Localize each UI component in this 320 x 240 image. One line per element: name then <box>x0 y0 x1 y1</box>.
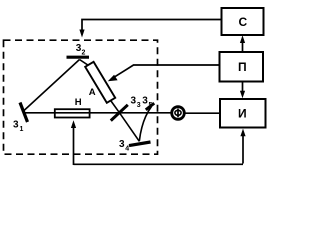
svg-text:3: 3 <box>119 139 125 150</box>
svg-text:Н: Н <box>75 97 82 108</box>
svg-text:4: 4 <box>125 146 129 153</box>
svg-text:3: 3 <box>131 96 137 107</box>
beam: mirror 3_4 up to tick 3_5 <box>139 107 151 142</box>
wire P-box up to C-box (arrow up) <box>240 35 245 52</box>
svg-text:5: 5 <box>149 102 153 109</box>
svg-text:С: С <box>239 15 248 29</box>
feedback wire: under I-box, along bottom, up to cell H (arrows up at both ends) <box>71 120 246 165</box>
splitter tick 3_3 <box>111 105 128 121</box>
svg-text:И: И <box>238 107 247 121</box>
beam: mirror 3_1 diagonal up to mirror 3_2 <box>24 60 80 111</box>
svg-text:П: П <box>238 60 247 74</box>
beam: 3_2 down through A, through splitter 3_3 to mirror 3_4 <box>80 60 140 142</box>
svg-text:2: 2 <box>82 50 86 57</box>
svg-text:3: 3 <box>142 96 148 107</box>
block P <box>220 52 264 82</box>
dashed enclosure box <box>4 40 158 154</box>
block I <box>220 99 266 128</box>
wire P-box to modulator A (with arrow at A) <box>108 65 220 81</box>
mirror 3_1 <box>20 103 28 123</box>
wire photodetector F to I-box <box>185 112 221 114</box>
wire C-box to mirror 3_2 (with down arrow) <box>79 20 221 38</box>
wire P-box down to I-box (arrow down) <box>240 82 245 99</box>
modulator A (tilted rectangle, beam hidden inside) <box>85 62 115 103</box>
svg-text:3: 3 <box>13 120 19 131</box>
tick 3_5 <box>146 103 154 110</box>
block C (counter) <box>222 8 264 35</box>
cell H (rectangle on horizontal beam) <box>55 109 90 117</box>
mirror 3_4 <box>129 142 151 146</box>
svg-text:1: 1 <box>20 126 24 133</box>
photodetector F (circle) <box>172 107 185 120</box>
svg-text:3: 3 <box>137 102 141 109</box>
svg-text:А: А <box>89 87 96 98</box>
mirror 3_2 <box>67 56 90 59</box>
horizontal beam 3_1 .. F <box>24 112 172 114</box>
